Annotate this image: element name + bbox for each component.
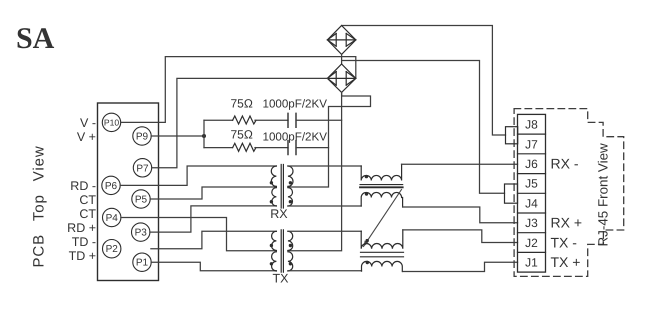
svg-text:RX: RX	[270, 207, 288, 221]
pin P6	[102, 176, 120, 194]
wire P6 to RX left top	[120, 166, 276, 185]
wire P4 to TX left center tap	[121, 218, 277, 251]
crossover diagonal with arrow	[364, 190, 402, 247]
choke L1 winding B	[361, 192, 402, 207]
svg-text:P7: P7	[136, 163, 149, 174]
dot choke A	[365, 175, 368, 178]
transformer T2 TX left winding	[272, 231, 277, 271]
capacitor C1 1000pF/2KV	[288, 113, 296, 127]
svg-text:J1: J1	[525, 256, 538, 270]
wire row1 right to TVS bottom vertical	[296, 119, 342, 121]
svg-text:1000pF/2KV: 1000pF/2KV	[263, 131, 328, 144]
choke L2 core	[361, 251, 404, 253]
dot RX left upper	[270, 181, 273, 184]
pin P2	[103, 240, 121, 258]
choke L2 winding C	[361, 230, 403, 249]
TVS diamond D2 (lower)	[327, 64, 355, 92]
wire row2 mid	[255, 147, 288, 149]
wire TVS top to J8/J7 bracket	[342, 26, 506, 136]
svg-text:P6: P6	[105, 181, 118, 192]
wire row2 left lead	[204, 147, 233, 149]
wire P2 to TX left top	[151, 231, 277, 248]
svg-text:PCB Top View: PCB Top View	[31, 145, 48, 267]
TVS diamond D1 (upper)	[327, 26, 355, 55]
dot TX right upper	[289, 244, 292, 247]
svg-text:P9: P9	[136, 132, 149, 143]
svg-text:J5: J5	[525, 177, 538, 191]
wire choke A to J6	[402, 163, 518, 165]
wire P1 to TX left bottom	[151, 262, 276, 271]
pin P3	[132, 223, 150, 241]
svg-text:TX -: TX -	[551, 234, 578, 250]
junction dot P9/RC	[202, 134, 206, 138]
wire choke D to J1	[403, 262, 518, 271]
transformer T2 TX core	[281, 230, 283, 272]
svg-text:CT: CT	[79, 207, 96, 221]
svg-text:RJ-45 Front View: RJ-45 Front View	[596, 143, 611, 247]
link between diamonds	[341, 54, 343, 64]
svg-text:P1: P1	[136, 258, 149, 269]
svg-text:75Ω: 75Ω	[231, 128, 253, 142]
svg-text:P3: P3	[135, 228, 148, 239]
pin P7	[133, 159, 151, 177]
wire RC bracket vertical	[203, 120, 205, 147]
shorting bracket J8/J7	[506, 127, 518, 144]
svg-text:RD +: RD +	[67, 221, 96, 235]
choke L1 winding A	[361, 164, 401, 180]
svg-text:TD +: TD +	[69, 249, 96, 263]
transformer T1 RX right winding	[288, 166, 293, 206]
J column outer	[518, 114, 546, 272]
transformer T2 TX right winding	[288, 231, 293, 271]
pin P4	[103, 208, 121, 226]
wire TX right bottom to choke L2 winding D	[288, 270, 362, 272]
dot choke C	[366, 239, 369, 242]
resistor R2 75ohm	[233, 143, 256, 151]
svg-text:J6: J6	[525, 157, 538, 171]
wire RX right top to choke L1 winding A	[288, 165, 361, 167]
svg-text:TX: TX	[273, 272, 290, 286]
svg-text:V -: V -	[80, 116, 96, 130]
svg-text:TX +: TX +	[551, 254, 581, 270]
svg-text:V +: V +	[77, 130, 96, 144]
pin P9	[133, 127, 151, 145]
shorting bracket J5/J4	[505, 184, 518, 203]
svg-text:P10: P10	[104, 117, 120, 127]
wire row2 right to staircase vertical	[296, 147, 329, 149]
svg-text:J4: J4	[525, 196, 538, 210]
wire P5 to RX left center tap	[150, 187, 276, 199]
svg-text:P4: P4	[106, 213, 119, 224]
dot RX right lower	[289, 200, 292, 203]
pin P1	[133, 253, 151, 271]
transformer T1 RX core	[281, 165, 283, 209]
dot choke B	[365, 192, 368, 195]
dot TX left upper	[270, 244, 273, 247]
svg-text:CT: CT	[79, 193, 96, 207]
wire row1 left lead	[204, 119, 233, 121]
wire TX right top to choke L2 winding C	[288, 230, 361, 232]
dot TX right lower	[289, 262, 292, 265]
svg-text:P5: P5	[135, 195, 148, 206]
svg-text:75Ω: 75Ω	[231, 97, 253, 111]
dot RX right upper	[289, 181, 292, 184]
wire P9 to RC bracket	[151, 135, 204, 137]
choke L2 winding D	[362, 261, 403, 271]
svg-text:1000pF/2KV: 1000pF/2KV	[263, 97, 328, 110]
wire TVS bottom vertical to TX center tap	[288, 92, 342, 250]
wire TVS mid junction to J5/J4 bracket	[342, 61, 505, 194]
svg-text:SA: SA	[16, 22, 55, 55]
wire choke B to J3	[403, 207, 518, 223]
svg-text:RX -: RX -	[551, 156, 579, 172]
choke L1 core	[360, 184, 403, 186]
dot choke D	[366, 261, 369, 264]
svg-text:J7: J7	[525, 137, 538, 151]
resistor R1 75ohm	[233, 116, 256, 124]
wire row1 mid	[255, 119, 288, 121]
svg-text:RD -: RD -	[70, 179, 96, 193]
wire TVS bottom staircase to RX center tap	[288, 92, 371, 187]
wire P10 to TVS junction and lower diamond right vertex	[121, 57, 356, 123]
J cell dividers	[518, 134, 546, 252]
svg-text:RX +: RX +	[551, 215, 583, 231]
capacitor C2 1000pF/2KV	[288, 141, 296, 155]
wire RX right bottom to choke L1 winding B	[288, 205, 361, 207]
dot RX left lower	[270, 200, 273, 203]
svg-text:J3: J3	[525, 216, 538, 230]
wire choke C to J2	[403, 230, 518, 243]
wire P3 to RX left bottom	[150, 206, 277, 232]
RJ45 dashed outline	[514, 109, 624, 277]
wire P7 to lower diamond left vertex	[152, 78, 328, 167]
svg-text:TD -: TD -	[72, 235, 96, 249]
connector box PCB	[98, 103, 159, 281]
dot TX left lower	[270, 262, 273, 265]
svg-text:J8: J8	[525, 118, 538, 132]
svg-text:J2: J2	[525, 236, 538, 250]
transformer T1 RX left winding	[271, 166, 276, 206]
pin P10	[102, 113, 120, 131]
pin P5	[132, 190, 150, 208]
svg-text:P2: P2	[106, 244, 119, 255]
